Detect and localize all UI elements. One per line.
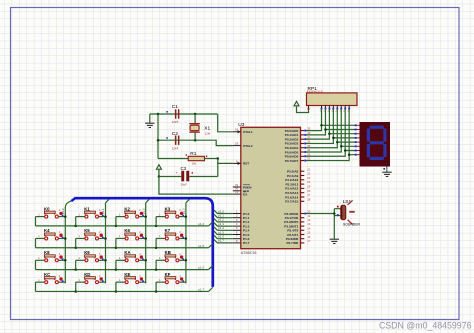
svg-text:K5: K5 xyxy=(84,228,90,233)
wire bus to P1.7 xyxy=(214,240,233,243)
node junction column/button xyxy=(104,215,107,218)
pin XTAL1 (pin 19) xyxy=(233,128,253,134)
pin RP1-9 xyxy=(347,106,350,113)
pin RP1-4 xyxy=(328,106,331,113)
microcontroller U3 AT89C51 xyxy=(238,122,300,255)
node junction C2 left rail xyxy=(157,139,160,142)
pin 7seg-3 xyxy=(355,133,360,135)
node junction seg7 xyxy=(348,153,351,156)
node junction row wire xyxy=(74,247,77,250)
pin P2.5/A13 (pin 26) xyxy=(285,189,310,195)
capacitor C2 xyxy=(166,131,179,150)
node junction row wire xyxy=(115,268,118,271)
svg-text:p1.4: p1.4 xyxy=(198,222,204,226)
svg-text:P2.7/A15: P2.7/A15 xyxy=(285,200,298,204)
pin P2.2/A10 (pin 23) xyxy=(285,176,310,182)
pin RP1-2 xyxy=(320,106,323,113)
wire XTAL2 net (C2 to crystal bottom to chip) xyxy=(158,140,233,145)
svg-text:C1: C1 xyxy=(172,104,178,110)
node junction column/button xyxy=(144,215,147,218)
push button K0 xyxy=(36,206,66,226)
push button K8 xyxy=(36,250,66,270)
pin P2.7/A15 (pin 28) xyxy=(285,197,310,203)
push button K2 xyxy=(116,206,146,226)
ground (crystal circuit) xyxy=(145,114,154,128)
pin 7seg-8 xyxy=(355,154,360,156)
push button K3 xyxy=(156,206,186,226)
svg-text:p1.7: p1.7 xyxy=(218,239,224,243)
wire bus to P1.6 xyxy=(214,235,233,238)
node junction row wire xyxy=(74,268,77,271)
wire XTAL1 net (C1 to crystal to chip) xyxy=(150,114,233,132)
pin ALE (pin 30) xyxy=(233,187,249,193)
wire bus to P1.1 xyxy=(214,214,233,217)
node junction column/button xyxy=(64,215,67,218)
pin 7seg-4 xyxy=(355,137,360,139)
node junction column/button xyxy=(64,259,67,262)
svg-text:28: 28 xyxy=(307,197,311,201)
svg-text:EA: EA xyxy=(243,192,248,196)
pin P1.6 (pin 7) xyxy=(233,235,250,241)
node junction seg4 xyxy=(336,141,339,144)
node junction row wire xyxy=(74,225,77,228)
svg-text:K1: K1 xyxy=(84,206,90,211)
wire P0.3 to RP1 and 7seg segment 3 xyxy=(306,109,356,144)
pin P1.2 (pin 3) xyxy=(233,218,250,224)
pin P0.2/AD2 (pin 37) xyxy=(285,135,311,141)
wire keypad column 3 (p1.3) xyxy=(186,199,190,283)
pin RST (pin 9) xyxy=(233,159,249,165)
power VCC (RP1 common) xyxy=(294,101,309,112)
pin 7seg-5 xyxy=(355,141,360,143)
node junction crystal-bottom xyxy=(194,139,197,142)
svg-text:KA: KA xyxy=(124,250,130,255)
pin P0.7/AD7 (pin 32) xyxy=(285,157,311,163)
svg-text:22PF: 22PF xyxy=(172,120,179,124)
resistor pack RP1 RESPACK-8 xyxy=(307,86,358,106)
wire GND left rail xyxy=(157,114,159,159)
svg-text:KE: KE xyxy=(124,272,130,277)
push button KE xyxy=(116,272,146,292)
node junction column/button xyxy=(144,237,147,240)
push button KC xyxy=(36,272,66,292)
pin 7seg-7 xyxy=(355,150,360,152)
svg-text:KB: KB xyxy=(165,250,171,255)
pin P1.4 (pin 5) xyxy=(233,226,250,232)
svg-text:10k: 10k xyxy=(192,162,197,166)
wire bus to P1.3 xyxy=(214,223,233,226)
wire keypad column 1 (p1.1) xyxy=(106,199,110,283)
pin XTAL2 (pin 18) xyxy=(233,142,253,148)
power VCC (reset circuit) xyxy=(156,165,161,177)
node junction column/button xyxy=(144,259,147,262)
svg-text:XTAL2: XTAL2 xyxy=(243,144,253,148)
node junction seg5 xyxy=(340,145,343,148)
push button K9 xyxy=(76,250,106,270)
pin P3.2/INT0 (pin 12) xyxy=(284,218,311,224)
pin 7seg-2 xyxy=(355,129,360,131)
svg-text:18: 18 xyxy=(235,142,239,146)
node junction C1-right/crystal-top xyxy=(194,113,197,116)
wire P0.6 to RP1 and 7seg segment 6 xyxy=(306,109,356,157)
pin RP1-8 xyxy=(343,106,346,113)
svg-text:12M: 12M xyxy=(205,131,211,135)
capacitor C1 xyxy=(166,104,179,124)
node junction row wire xyxy=(155,290,158,293)
pin P3.0/RXD (pin 10) xyxy=(284,210,310,216)
pin P2.6/A14 (pin 27) xyxy=(285,193,310,199)
svg-text:K7: K7 xyxy=(165,228,171,233)
svg-text:K8: K8 xyxy=(44,250,50,255)
pin P1.3 (pin 4) xyxy=(233,222,250,228)
pin P0.4/AD4 (pin 35) xyxy=(285,144,311,150)
wire P0.1 to RP1 and 7seg segment 1 xyxy=(306,109,356,135)
push button K4 xyxy=(36,228,66,248)
node junction column/button xyxy=(104,237,107,240)
svg-text:XTAL1: XTAL1 xyxy=(243,130,253,134)
pin RP1-5 xyxy=(332,106,335,113)
pin P0.3/AD3 (pin 36) xyxy=(285,140,311,146)
node junction column/button xyxy=(104,259,107,262)
push button KF xyxy=(156,272,186,292)
svg-text:17: 17 xyxy=(307,239,311,243)
pin RP1-7 xyxy=(339,106,342,113)
node junction column/button xyxy=(64,237,67,240)
wire P3.0 to sounder xyxy=(306,209,341,239)
node junction R1-right / RST xyxy=(217,157,220,160)
pin P2.0/A8 (pin 21) xyxy=(287,167,311,173)
wire RST net xyxy=(218,159,233,177)
node junction seg6 xyxy=(344,149,347,152)
node junction row wire xyxy=(115,225,118,228)
svg-text:P1.7: P1.7 xyxy=(243,241,250,245)
svg-text:19: 19 xyxy=(235,128,239,132)
svg-text:p1.7: p1.7 xyxy=(198,287,204,291)
wire keypad row 0 (p1.4) xyxy=(36,222,213,226)
node junction VCC / C3 xyxy=(158,175,161,178)
wire 7seg common to ground xyxy=(383,167,386,173)
push button KB xyxy=(156,250,186,270)
node junction seg1 xyxy=(324,128,327,131)
wire keypad row 2 (p1.6) xyxy=(36,265,213,269)
pin P3.3/INT1 (pin 13) xyxy=(284,222,311,228)
svg-text:K4: K4 xyxy=(44,228,50,233)
7-segment display body xyxy=(360,122,391,167)
node junction ground/left-rail xyxy=(157,113,160,116)
wire bus to P1.5 xyxy=(214,231,233,234)
node junction column/button xyxy=(185,237,188,240)
svg-text:RST: RST xyxy=(243,162,249,166)
svg-text:K0: K0 xyxy=(44,206,50,211)
node junction row wire xyxy=(115,290,118,293)
pin P3.1/TXD (pin 11) xyxy=(285,214,311,220)
wire bus to P1.2 xyxy=(214,219,233,222)
resistor R1 xyxy=(158,151,218,166)
wire P0.2 to RP1 and 7seg segment 2 xyxy=(306,109,356,140)
wire bus to P1.0 xyxy=(214,210,233,213)
node junction row wire xyxy=(115,247,118,250)
pin P2.3/A11 (pin 24) xyxy=(285,180,310,186)
svg-text:22PF: 22PF xyxy=(172,146,179,150)
svg-text:+: + xyxy=(176,171,178,175)
svg-text:K6: K6 xyxy=(124,228,130,233)
svg-text:P0.7/AD7: P0.7/AD7 xyxy=(285,159,299,163)
pin P3.5/T1 (pin 15) xyxy=(287,231,310,237)
node junction row wire xyxy=(155,225,158,228)
node junction sounder wire xyxy=(333,212,336,215)
pin P0.6/AD6 (pin 33) xyxy=(285,152,311,158)
wire P0.4 to RP1 and 7seg segment 4 xyxy=(306,109,356,148)
pin P1.0 (pin 1) xyxy=(233,209,250,215)
wire P0.7 to RP1 and 7seg segment 7 xyxy=(306,109,356,161)
wire bus to P1.4 xyxy=(214,227,233,230)
push button KD xyxy=(76,272,106,292)
svg-text:K2: K2 xyxy=(124,206,130,211)
svg-text:31: 31 xyxy=(235,190,239,194)
ground (7-segment) xyxy=(382,172,391,176)
node junction seg3 xyxy=(332,137,335,140)
svg-text:p1.6: p1.6 xyxy=(198,266,204,270)
pin 7seg-1 xyxy=(355,124,360,126)
svg-text:KF: KF xyxy=(165,272,171,277)
pin P2.1/A9 (pin 22) xyxy=(287,172,311,178)
capacitor C3 electrolytic xyxy=(159,166,218,186)
svg-text:10uF: 10uF xyxy=(181,182,188,186)
pin P1.5 (pin 6) xyxy=(233,230,250,236)
pin P2.4/A12 (pin 25) xyxy=(285,185,310,191)
pin P0.0/AD0 (pin 39) xyxy=(285,127,311,133)
pin P3.4/T0 (pin 14) xyxy=(287,226,310,232)
wire keypad column 2 (p1.2) xyxy=(146,199,150,283)
wire EA to VCC xyxy=(159,177,233,195)
svg-text:CSDN @m0_48459976: CSDN @m0_48459976 xyxy=(379,321,472,331)
pin P0.1/AD1 (pin 38) xyxy=(285,131,311,137)
ground (sounder) xyxy=(330,239,339,243)
svg-text:K9: K9 xyxy=(84,250,90,255)
node junction seg0 xyxy=(320,124,323,127)
pin RP1-1 common xyxy=(308,106,310,110)
svg-text:KD: KD xyxy=(84,272,90,277)
push button K5 xyxy=(76,228,106,248)
node junction column/button xyxy=(185,259,188,262)
pin PSEN (pin 29) xyxy=(233,183,252,189)
push button K6 xyxy=(116,228,146,248)
svg-text:SOUNDER: SOUNDER xyxy=(343,223,361,227)
crystal X1 xyxy=(189,114,210,140)
wire P0.0 to RP1 and 7seg segment 0 xyxy=(306,109,356,131)
node junction seg2 xyxy=(328,132,331,135)
node junction column/button xyxy=(185,215,188,218)
wire keypad row 1 (p1.5) xyxy=(36,244,213,248)
svg-text:p1.5: p1.5 xyxy=(198,244,204,248)
node junction row wire xyxy=(155,268,158,271)
push button K1 xyxy=(76,206,106,226)
pin P1.7 (pin 8) xyxy=(233,239,250,245)
svg-text:C3: C3 xyxy=(181,166,187,171)
push button K7 xyxy=(156,228,186,248)
svg-text:P3.7/RD: P3.7/RD xyxy=(286,241,298,245)
wire keypad row 3 (p1.7) xyxy=(36,287,213,291)
bus P1 keypad (blue) xyxy=(74,198,213,287)
svg-text:KC: KC xyxy=(44,272,50,277)
node junction row wire xyxy=(155,247,158,250)
pin RP1-6 xyxy=(335,106,338,113)
pin EA (pin 31) xyxy=(233,190,248,196)
push button KA xyxy=(116,250,146,270)
pin P3.6/WR (pin 16) xyxy=(286,235,311,241)
node junction row wire xyxy=(74,290,77,293)
wire P0.5 to RP1 and 7seg segment 5 xyxy=(306,109,356,152)
svg-text:K3: K3 xyxy=(165,206,171,211)
sounder LS1 xyxy=(337,199,361,227)
7seg segments figure 8 xyxy=(368,127,385,158)
pin 7seg-6 xyxy=(355,145,360,147)
wire keypad column 0 (p1.0) xyxy=(65,201,71,283)
pin P3.7/RD (pin 17) xyxy=(286,239,310,245)
svg-text:AT89C51: AT89C51 xyxy=(241,250,257,255)
pin RP1-3 xyxy=(324,106,327,113)
pin P1.1 (pin 2) xyxy=(233,214,250,220)
pin P0.5/AD5 (pin 34) xyxy=(285,148,311,154)
